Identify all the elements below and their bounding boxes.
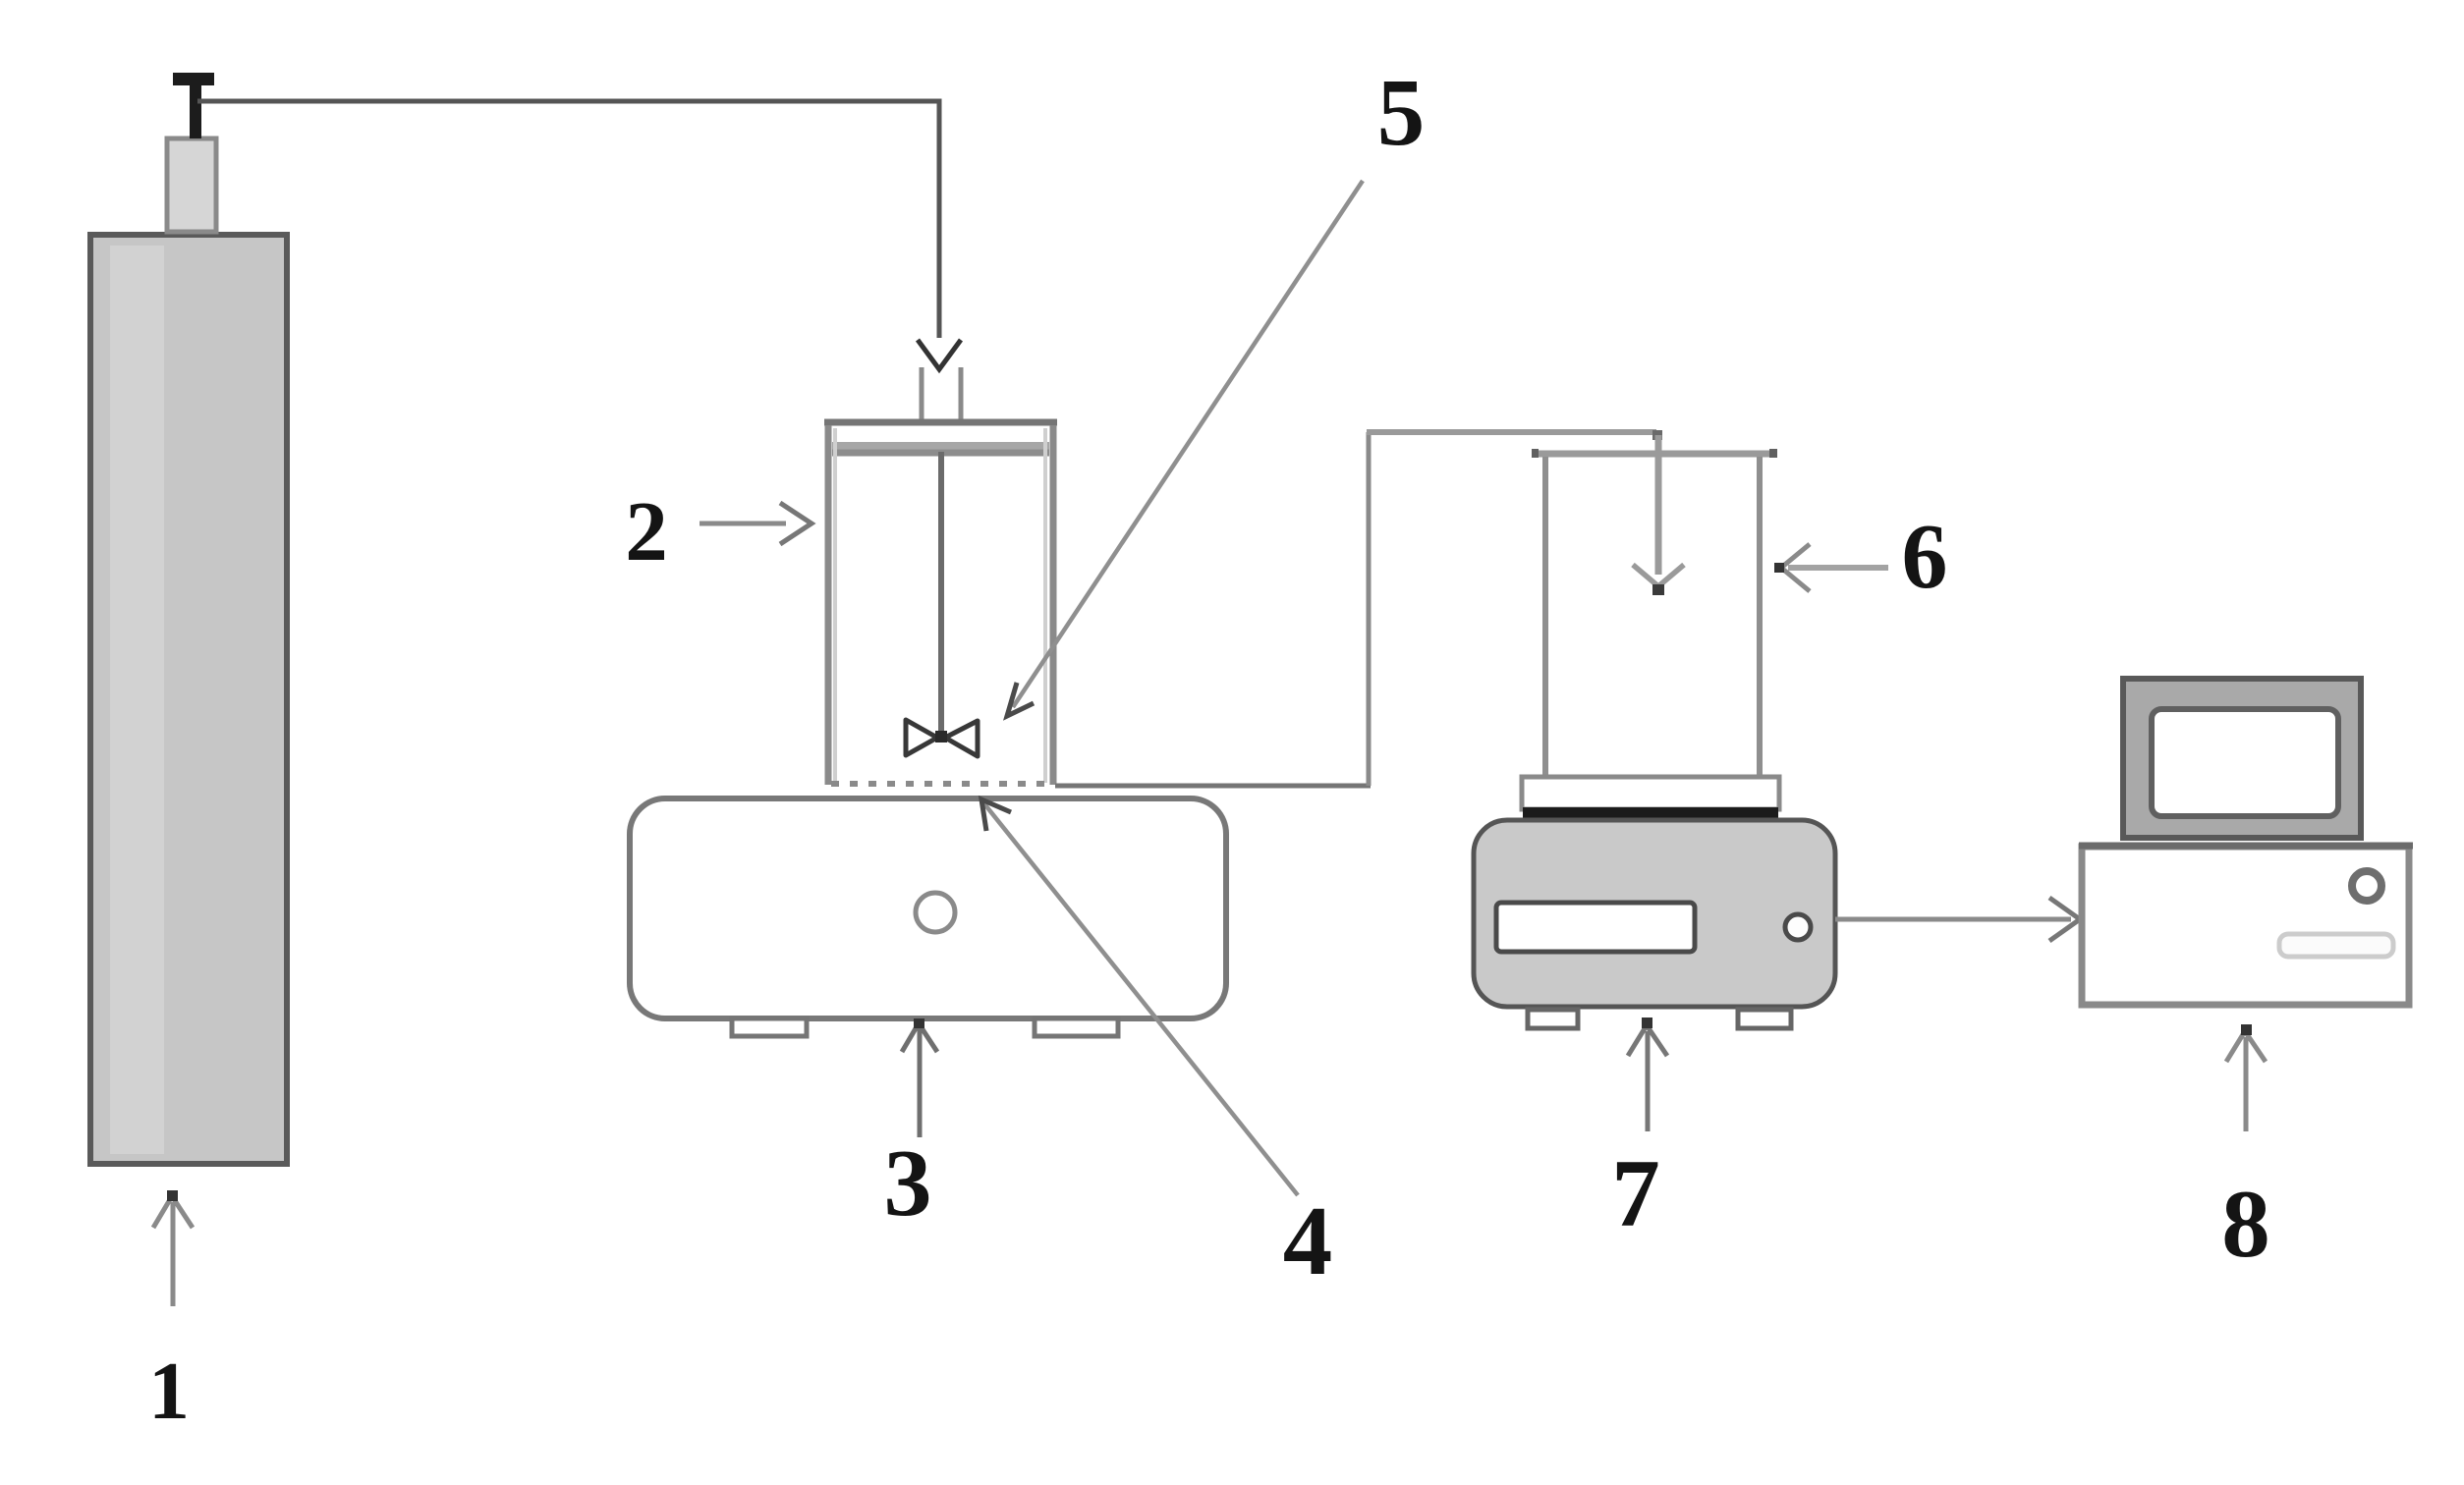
svg-text:7: 7: [1611, 1140, 1660, 1247]
hot plate 3: [630, 798, 1226, 1036]
arrowhead down into reactor inlet: [918, 340, 961, 369]
frit dotted line 4: [831, 781, 1049, 787]
wire balance to computer: [1835, 898, 2080, 941]
stirrer impeller 5: [906, 720, 978, 756]
svg-text:3: 3: [884, 1130, 932, 1237]
arrow for label 7: [1628, 1017, 1667, 1131]
arrow for label 8: [2226, 1024, 2266, 1131]
reactor vessel 2: [824, 422, 1057, 785]
svg-text:2: 2: [625, 483, 668, 578]
gas cylinder 1 body: [90, 235, 287, 1164]
balance 7: [1474, 777, 1835, 1028]
arrow for label 6: [1774, 544, 1888, 591]
arrow for label 1: [153, 1190, 193, 1306]
computer 8 monitor: [2123, 679, 2361, 838]
leader line to label 5: [1007, 181, 1363, 716]
arrow for label 3: [902, 1018, 937, 1137]
wire gas line from cylinder to reactor inlet: [197, 101, 939, 338]
reactor inlet port tube: [922, 367, 961, 419]
arrow for label 2: [700, 503, 812, 544]
tube reactor outlet to collection vessel: [1055, 430, 1684, 786]
gas cylinder valve neck: [167, 138, 216, 232]
collection vessel 6: [1532, 449, 1777, 778]
gas cylinder valve T-handle: [173, 73, 214, 138]
svg-text:6: 6: [1902, 506, 1948, 608]
computer 8 system unit: [2079, 846, 2413, 1005]
svg-text:4: 4: [1283, 1185, 1333, 1295]
leader line to label 4: [981, 799, 1298, 1195]
svg-text:8: 8: [2221, 1171, 2270, 1278]
svg-text:5: 5: [1377, 60, 1426, 165]
svg-text:1: 1: [148, 1346, 190, 1437]
stirrer shaft: [938, 452, 944, 732]
